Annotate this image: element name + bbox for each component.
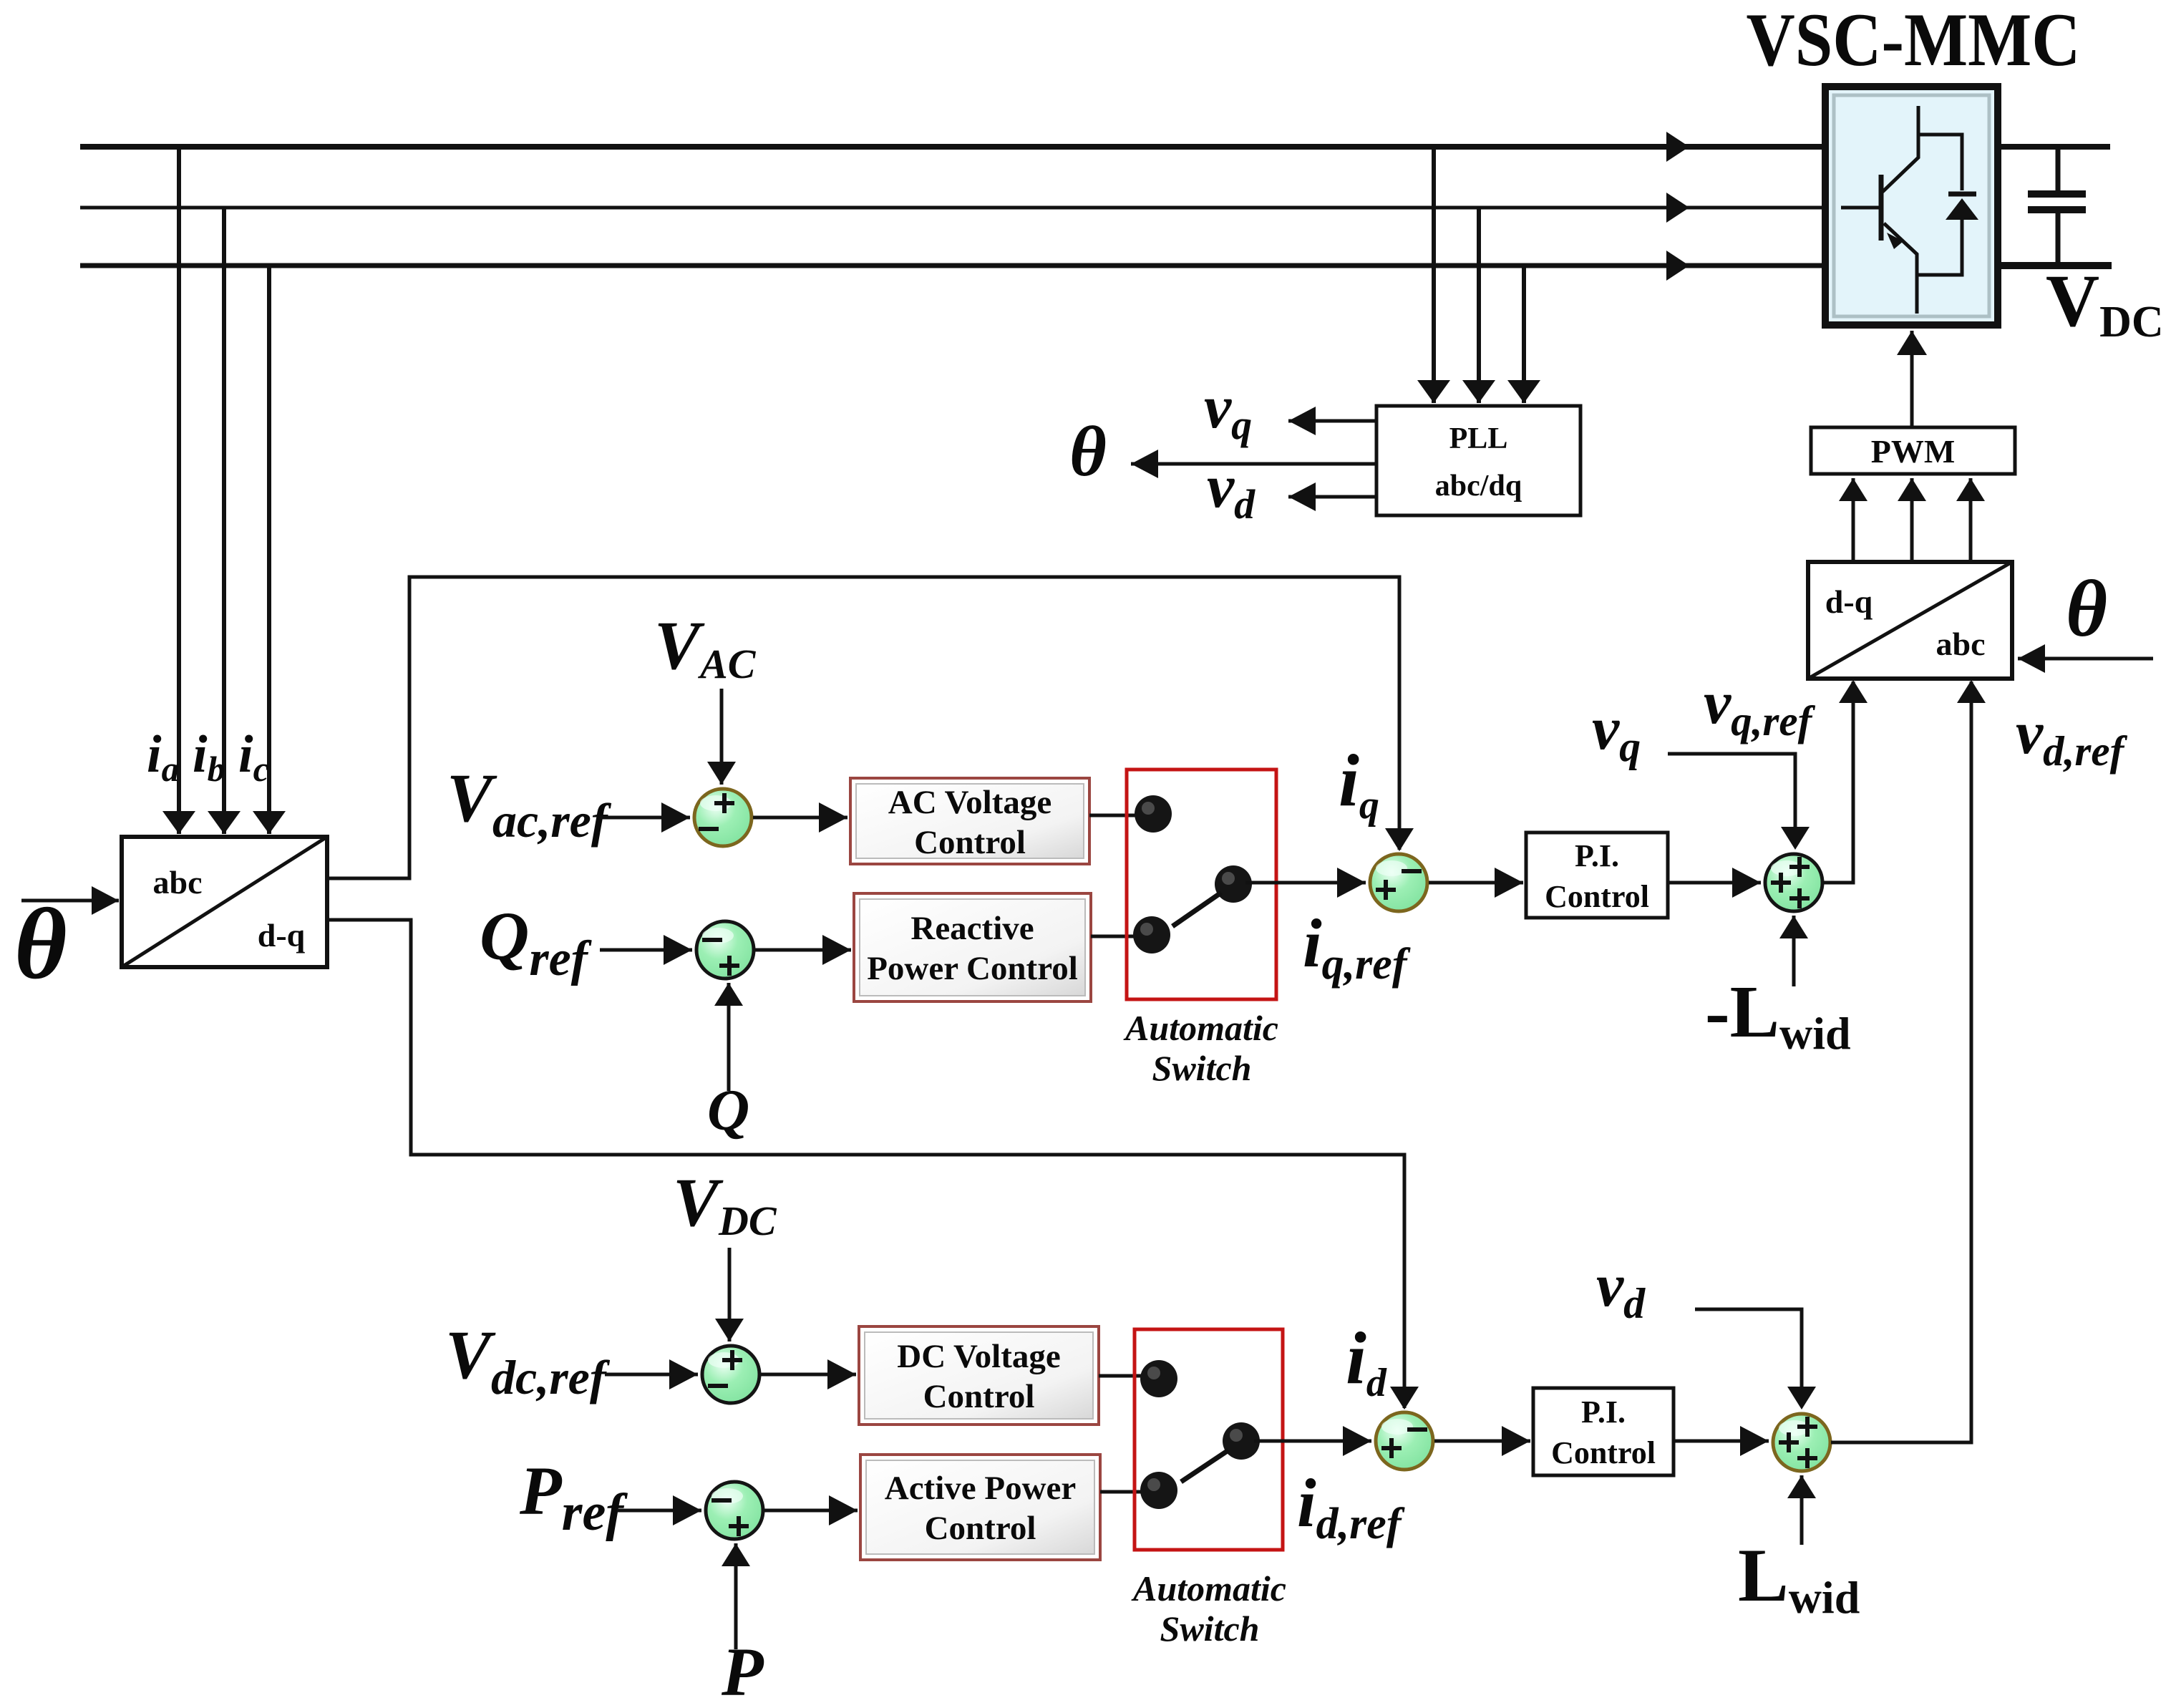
svg-text:Control: Control [923, 1378, 1035, 1415]
switch SW1 contact lower [1133, 916, 1170, 954]
wire theta input to d-q/abc [2018, 657, 2153, 661]
P.I. Control block 1 [1526, 833, 1668, 918]
DC Voltage Control block [859, 1326, 1099, 1425]
bus phase-b arrowhead into VSC [1666, 193, 1689, 223]
wire id feedback loop [327, 920, 1404, 1389]
svg-text:Control: Control [1551, 1435, 1656, 1470]
wire iq arrow into summer S4 [1398, 816, 1402, 850]
svg-text:abc/dq: abc/dq [1435, 470, 1522, 503]
wire bus phase-c [80, 263, 1825, 268]
wire Lwid into summer S8 [1800, 1475, 1804, 1545]
wire vd arrowhead into S8 [1800, 1367, 1804, 1407]
svg-text:Control: Control [1545, 879, 1649, 914]
wire voltage tap vb to PLL [1477, 208, 1481, 403]
svg-text:θ: θ [14, 887, 67, 1000]
svg-text:PWM: PWM [1871, 433, 1956, 470]
svg-text:Control: Control [914, 824, 1026, 861]
diode anti-parallel inside VSC-MMC [1918, 135, 1978, 275]
switch SW1 lever [1172, 893, 1221, 926]
wire S1 to AC Voltage Control [753, 816, 847, 820]
wire vd,ref arrowhead into d-q/abc [1970, 681, 1973, 716]
automatic switch SW1 box [1127, 770, 1276, 999]
svg-text:Reactive: Reactive [910, 910, 1034, 947]
wire bus phase-a [80, 144, 1825, 150]
wire current tap ic [267, 266, 271, 834]
summing junction S6 (P) [706, 1482, 763, 1539]
summing junction S4 (iq) [1370, 854, 1427, 911]
wire P into summer S6 [734, 1543, 738, 1649]
svg-text:abc: abc [1936, 626, 1986, 662]
switch SW1 contact upper [1135, 795, 1172, 833]
PLL abc/dq block [1376, 406, 1580, 515]
svg-text:θ: θ [2066, 565, 2107, 654]
summing junction S2 (Q) [696, 921, 754, 979]
wire voltage tap va to PLL [1432, 147, 1436, 403]
svg-text:Power Control: Power Control [867, 950, 1078, 987]
summing junction S7 (id) [1376, 1412, 1433, 1470]
wire DC negative rail [1998, 262, 2112, 269]
switch SW2 contact upper [1140, 1360, 1177, 1397]
wire vq,ref arrowhead into d-q/abc [1852, 681, 1855, 716]
switch SW2 common pole [1223, 1422, 1260, 1460]
wire S2 to Reactive Power Control [755, 948, 851, 952]
wire Active Power Control to switch contact [1100, 1490, 1150, 1494]
svg-text:d-q: d-q [1825, 583, 1873, 620]
svg-text:Automatic: Automatic [1131, 1568, 1286, 1608]
switch SW1 common pole [1215, 865, 1252, 903]
wire vd into summer S8 [1695, 1309, 1802, 1374]
switch SW2 contact lower [1140, 1472, 1177, 1509]
wire AC Voltage Control to switch contact [1089, 814, 1144, 817]
capacitor DC-link [2028, 147, 2086, 266]
wire PWM input a [1852, 478, 1855, 562]
svg-text:θ: θ [1069, 412, 1107, 491]
svg-text:Automatic: Automatic [1123, 1008, 1278, 1048]
wire S4 to PI Control 1 [1429, 881, 1523, 885]
wire -Lwid into summer S3 [1792, 916, 1796, 986]
wire DC positive rail [1998, 144, 2110, 150]
wire PLL output vd [1288, 495, 1376, 499]
svg-text:Active Power: Active Power [885, 1470, 1077, 1507]
wire theta input to abc/d-q [21, 899, 119, 903]
wire SW1 output to summer S4 [1245, 881, 1366, 885]
automatic switch SW2 box [1135, 1329, 1283, 1550]
wire PLL output vq [1288, 419, 1376, 423]
wire Vac,ref into summer S1 [600, 816, 690, 820]
wire S6 to Active Power Control [764, 1509, 858, 1513]
wire Q into summer S2 [727, 983, 731, 1091]
wire current tap ib [222, 208, 226, 834]
wire VAC into summer S1 [720, 689, 724, 785]
wire vq into summer S3 [1668, 754, 1795, 816]
P.I. Control block 2 [1533, 1388, 1674, 1475]
wire PWM to VSC-MMC gate [1910, 331, 1914, 427]
svg-text:Switch: Switch [1152, 1048, 1252, 1088]
wire PI2 to summer S8 [1674, 1440, 1769, 1443]
Reactive Power Control block [854, 893, 1091, 1001]
bus phase-a arrowhead into VSC [1666, 132, 1689, 162]
wire S8 output vd,ref [1831, 709, 1971, 1442]
wire DC Voltage Control to switch contact [1099, 1374, 1150, 1378]
d-q/abc transform block U2 [1808, 562, 2012, 679]
wire SW2 output to summer S7 [1254, 1440, 1371, 1443]
wire PI1 to summer S3 [1668, 881, 1761, 885]
wire Vdc,ref into summer S5 [605, 1373, 698, 1377]
wire iq feedback loop [327, 577, 1399, 878]
svg-text:P: P [721, 1634, 764, 1708]
wire current tap ia [177, 147, 181, 834]
svg-text:d-q: d-q [258, 917, 306, 954]
summing junction S5 (VDC) [702, 1346, 759, 1403]
svg-text:P.I.: P.I. [1575, 838, 1619, 873]
wire PLL output theta [1131, 462, 1376, 466]
summing junction S8 (vd,ref) [1773, 1414, 1830, 1471]
abc/d-q transform block U1 [122, 837, 327, 967]
wire Reactive Power Control to switch contact [1091, 935, 1142, 938]
svg-text:VSC-MMC: VSC-MMC [1747, 0, 2081, 82]
svg-text:abc: abc [153, 864, 203, 901]
wire id arrow into summer S7 [1403, 1382, 1407, 1408]
svg-text:DC Voltage: DC Voltage [897, 1338, 1060, 1375]
summing junction S3 (vq,ref) [1765, 854, 1822, 911]
wire vq arrowhead into S3 [1794, 809, 1797, 847]
svg-text:AC Voltage: AC Voltage [888, 784, 1051, 821]
AC Voltage Control block [850, 778, 1089, 864]
wire Pref into summer S6 [617, 1509, 701, 1513]
wire PWM input b [1910, 478, 1914, 562]
wire S7 to PI Control 2 [1434, 1440, 1530, 1443]
wire VDC into summer S5 [728, 1248, 732, 1341]
VSC-MMC converter block [1825, 87, 1998, 325]
PWM block [1811, 427, 2015, 474]
wire PWM input c [1969, 478, 1973, 562]
wire S3 output vq,ref [1823, 709, 1853, 883]
switch SW2 lever [1181, 1450, 1228, 1482]
svg-text:Control: Control [925, 1510, 1036, 1547]
svg-text:Switch: Switch [1160, 1608, 1260, 1649]
bus phase-c arrowhead into VSC [1666, 251, 1689, 281]
svg-text:P.I.: P.I. [1581, 1394, 1626, 1430]
wire S5 to DC Voltage Control [761, 1373, 856, 1377]
transistor IGBT inside VSC-MMC [1841, 106, 1918, 314]
wire bus phase-b [80, 206, 1825, 210]
wire Qref into summer S2 [600, 948, 692, 952]
wire voltage tap vc to PLL [1522, 266, 1526, 403]
Active Power Control block [860, 1455, 1100, 1560]
svg-text:PLL: PLL [1449, 422, 1508, 455]
summing junction S1 (VAC) [694, 789, 752, 846]
